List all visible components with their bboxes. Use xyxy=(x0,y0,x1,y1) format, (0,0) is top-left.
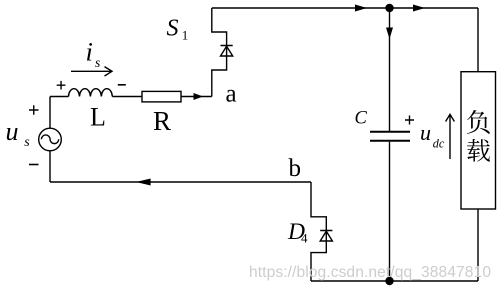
svg-text:1: 1 xyxy=(182,28,189,43)
svg-text:i: i xyxy=(86,36,93,66)
svg-text:b: b xyxy=(289,155,302,182)
svg-text:a: a xyxy=(226,81,237,108)
is arrow xyxy=(71,67,112,76)
udc arrow xyxy=(446,114,455,159)
arrow top rail 2 xyxy=(413,5,425,12)
svg-text:S: S xyxy=(167,16,179,42)
source us xyxy=(39,128,62,151)
svg-text:C: C xyxy=(355,108,368,128)
arrow top rail 1 xyxy=(355,5,367,12)
capacitor C plates xyxy=(370,132,410,141)
svg-text:4: 4 xyxy=(301,230,308,245)
capacitor branch wire top xyxy=(389,8,391,131)
arrow down on cap branch xyxy=(386,28,393,40)
svg-text:u: u xyxy=(420,120,431,145)
svg-text:s: s xyxy=(95,55,100,70)
svg-text:dc: dc xyxy=(433,137,445,151)
top rail wire xyxy=(212,7,478,9)
load box xyxy=(461,72,496,209)
wire xyxy=(50,96,69,98)
junction dot top xyxy=(385,4,393,12)
svg-text:L: L xyxy=(90,103,106,132)
diode D4 xyxy=(320,231,332,242)
plus sign cap xyxy=(405,116,414,125)
diode D4 branch xyxy=(311,182,326,281)
plus sign source xyxy=(29,105,39,114)
plus sign inductor xyxy=(57,81,66,90)
b rail wire xyxy=(50,181,311,183)
inductor L xyxy=(69,89,113,97)
switch S1 branch xyxy=(212,8,227,97)
load text 载 xyxy=(467,139,490,162)
arrow after R xyxy=(194,93,204,100)
minus sign source xyxy=(29,164,39,166)
minus sign inductor xyxy=(118,84,126,86)
svg-text:s: s xyxy=(24,135,30,150)
wire to load xyxy=(477,8,479,72)
resistor R xyxy=(142,91,181,102)
diode of S1 xyxy=(221,46,233,57)
capacitor branch wire bottom xyxy=(389,142,391,281)
arrow on b rail xyxy=(136,179,151,186)
svg-text:R: R xyxy=(153,106,171,136)
wire xyxy=(181,96,212,98)
junction dot bottom xyxy=(385,277,393,285)
load text 负 xyxy=(467,110,490,134)
bottom rail wire xyxy=(311,280,478,282)
svg-text:https://blog.csdn.net/qq_38847: https://blog.csdn.net/qq_38847810 xyxy=(249,264,491,281)
wire xyxy=(49,97,51,129)
svg-text:u: u xyxy=(6,117,19,146)
wire xyxy=(112,96,142,98)
wire from load xyxy=(477,209,479,281)
wire xyxy=(49,151,51,182)
